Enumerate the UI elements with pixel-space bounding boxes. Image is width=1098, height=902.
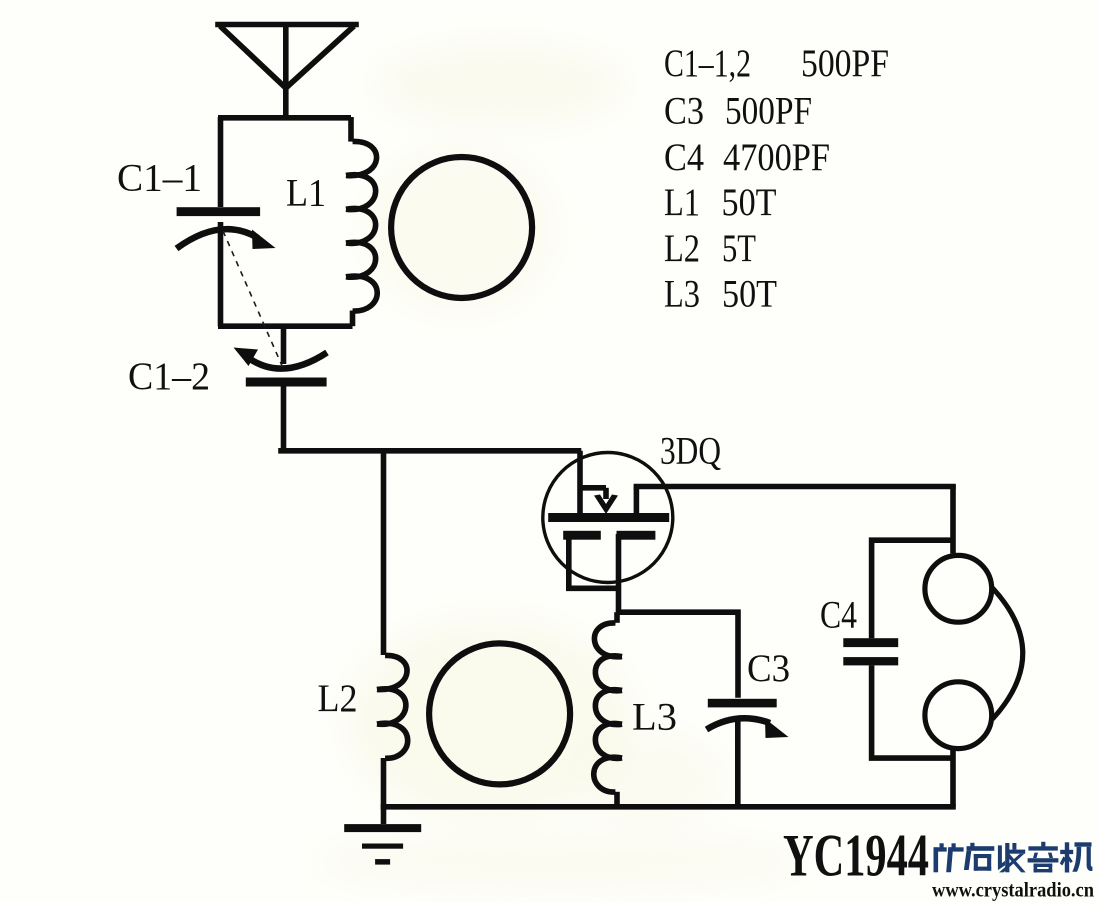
svg-text:L3: L3 [632,696,677,739]
svg-text:50T: 50T [722,181,777,224]
svg-text:500PF: 500PF [725,90,812,133]
svg-text:C1–1,2: C1–1,2 [664,42,751,85]
svg-text:3DQ: 3DQ [660,430,721,473]
svg-text:500PF: 500PF [801,42,889,85]
svg-text:L2: L2 [318,677,358,720]
svg-text:C1–2: C1–2 [128,355,210,398]
svg-text:YC1944: YC1944 [783,823,929,889]
svg-text:L1: L1 [286,172,326,215]
svg-text:L1: L1 [664,181,700,224]
svg-text:C4: C4 [664,136,704,179]
svg-text:C3: C3 [664,90,704,133]
svg-text:L2: L2 [664,227,700,270]
svg-text:50T: 50T [722,273,777,316]
svg-text:5T: 5T [722,227,756,270]
svg-text:C4: C4 [820,594,857,637]
svg-text:C1–1: C1–1 [117,157,202,200]
svg-text:www.crystalradio.cn: www.crystalradio.cn [932,878,1094,902]
svg-text:4700PF: 4700PF [723,136,830,179]
svg-text:C3: C3 [747,647,790,690]
svg-text:L3: L3 [664,273,700,316]
